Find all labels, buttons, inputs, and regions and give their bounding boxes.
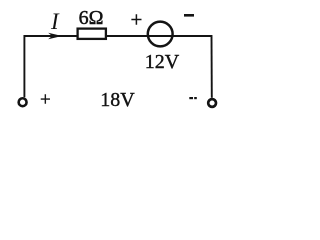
svg-text:I: I (50, 9, 60, 34)
wire left vertical (23, 35, 25, 97)
svg-text:12V: 12V (145, 51, 180, 73)
terminal left (19, 98, 27, 106)
resistor R 6ohm (78, 29, 106, 39)
svg-text:6Ω: 6Ω (79, 7, 104, 29)
wire top horizontal (24, 35, 213, 37)
current arrow I (48, 33, 62, 39)
label - of port dash 1 (189, 97, 193, 99)
label - of source (184, 14, 194, 17)
svg-text:+: + (131, 7, 143, 31)
voltage source U1 12V (148, 22, 173, 47)
svg-text:+: + (40, 90, 51, 111)
terminal right (208, 99, 216, 107)
label - of port dash 2 (194, 97, 197, 99)
svg-text:18V: 18V (100, 89, 135, 111)
wire right vertical (211, 35, 213, 98)
